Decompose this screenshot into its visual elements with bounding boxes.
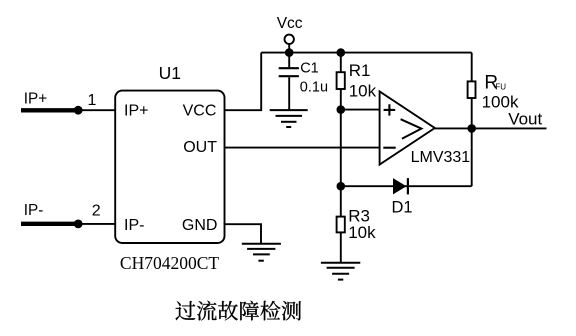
node A junction dot (divider to +input) xyxy=(337,105,346,114)
svg-text:OUT: OUT xyxy=(183,139,217,156)
svg-text:IP+: IP+ xyxy=(124,103,148,120)
wire RFU to Vout node xyxy=(471,98,473,128)
node IP- junction dot xyxy=(74,220,83,229)
node B junction dot (diode anode / R3) xyxy=(337,182,346,191)
op-amp - input symbol xyxy=(383,147,395,149)
resistor R1 body xyxy=(337,72,345,89)
diode D1 cathode bar xyxy=(407,178,409,194)
wire IP- to U1 pin 2 xyxy=(78,223,115,225)
wire Vcc circle to rail xyxy=(288,44,290,53)
caption char 流 xyxy=(197,301,217,321)
wire IP+ to U1 pin 1 xyxy=(78,109,115,111)
Vcc terminal circle xyxy=(285,35,294,44)
svg-text:IP+: IP+ xyxy=(24,90,47,107)
wire R1 to node A xyxy=(340,89,342,110)
wire rail to C1 top xyxy=(288,53,290,68)
caption char 检 xyxy=(260,301,280,321)
resistor RFU body xyxy=(468,81,476,98)
wire Vout node down to diode cathode xyxy=(471,128,473,186)
wire IP- input stub (thick) xyxy=(21,222,76,226)
svg-text:VCC: VCC xyxy=(183,103,217,120)
wire C1 bottom to ground xyxy=(288,77,290,109)
node IP+ junction dot xyxy=(74,106,83,115)
wire rail corner to RFU xyxy=(471,53,473,81)
ground below U1 GND xyxy=(242,244,281,261)
caption char 障 xyxy=(240,301,259,321)
wire node A down to diode/R3 node xyxy=(340,110,342,187)
wire IP+ input stub (thick) xyxy=(21,108,76,112)
op-amp U2 LMV331 triangle xyxy=(380,91,435,164)
ground below R3 xyxy=(321,263,360,280)
svg-text:LMV331: LMV331 xyxy=(411,149,471,166)
diode D1 triangle xyxy=(393,178,406,194)
svg-text:10k: 10k xyxy=(348,223,376,242)
wire node A to op-amp +input xyxy=(341,109,380,111)
svg-text:2: 2 xyxy=(92,203,101,220)
op-amp + input symbol xyxy=(384,104,396,115)
svg-text:IP-: IP- xyxy=(124,217,144,234)
wire U1 OUT to op-amp -input xyxy=(225,147,380,149)
op-amp hysteresis chevron xyxy=(401,119,422,139)
caption char 过 xyxy=(176,301,196,320)
wire diode row xyxy=(341,185,472,187)
svg-text:GND: GND xyxy=(182,217,218,234)
wire Vcc rail xyxy=(261,52,472,54)
wire U1 VCC pin to Vcc rail xyxy=(225,53,262,111)
wire node B to R3 xyxy=(340,186,342,216)
wire R3 to ground xyxy=(340,232,342,262)
svg-text:CH704200CT: CH704200CT xyxy=(120,253,219,273)
svg-text:U1: U1 xyxy=(159,63,181,83)
svg-text:D1: D1 xyxy=(392,198,413,216)
IC U1 body xyxy=(115,91,224,243)
wire rail to R1 xyxy=(340,53,342,73)
svg-text:IP-: IP- xyxy=(24,202,44,219)
wire op-amp output to Vout xyxy=(435,127,547,129)
svg-text:FU: FU xyxy=(495,83,506,92)
svg-text:Vcc: Vcc xyxy=(277,15,303,32)
node Vcc junction dot xyxy=(285,48,294,57)
svg-text:R1: R1 xyxy=(349,61,371,80)
caption char 测 xyxy=(282,301,301,320)
node rail/R1 junction dot xyxy=(337,48,346,57)
node Vout junction dot xyxy=(467,124,476,133)
caption char 故 xyxy=(218,301,238,320)
svg-text:Vout: Vout xyxy=(508,110,542,129)
resistor R3 body xyxy=(337,217,345,233)
svg-text:10k: 10k xyxy=(349,82,377,101)
svg-text:C1: C1 xyxy=(300,61,319,77)
ground below C1 xyxy=(270,110,308,127)
svg-text:0.1u: 0.1u xyxy=(300,80,328,96)
svg-text:1: 1 xyxy=(88,92,97,109)
wire U1 GND pin to ground xyxy=(225,224,262,244)
capacitor C1 plates xyxy=(279,67,299,69)
